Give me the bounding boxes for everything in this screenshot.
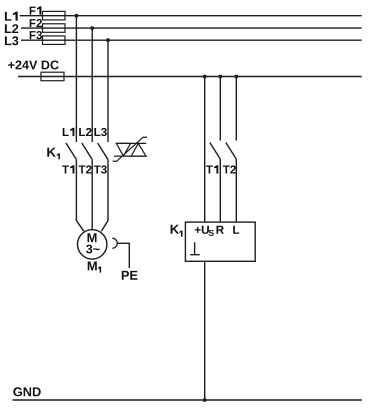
contactor pin label L2 (79, 128, 91, 136)
triac right triangle (131, 143, 146, 156)
wire contact T1 to box R (219, 159, 221, 222)
label PE (122, 271, 138, 280)
wire L1 phase line (20, 15, 362, 17)
terminal label R (217, 226, 224, 234)
wire drop from L1 to contactor (75, 16, 77, 142)
wire contact T2 to box L (235, 159, 237, 222)
contact label T1 (206, 165, 218, 173)
label F2 (30, 19, 42, 27)
fuse F3 (43, 36, 66, 45)
node junction dot L3 (106, 38, 110, 42)
triac symbol top line (116, 142, 147, 144)
fuse F1 (43, 11, 66, 20)
contactor pin label T2 (79, 165, 92, 173)
node junction dot +24V to T1 (218, 75, 222, 79)
wire +24V down to K1 box +Us (204, 77, 206, 223)
triac symbol bottom line (114, 155, 147, 157)
wire GND line (13, 399, 363, 401)
wire contactor T3 to motor (101, 160, 108, 232)
wire +24V down to contact T2 (235, 77, 237, 141)
label +24V DC (8, 61, 59, 70)
label L1 (5, 12, 18, 21)
contact T1 (210, 143, 220, 160)
wire drop from L2 to contactor (91, 28, 93, 142)
fuse on +24V line (41, 72, 64, 81)
motor label M (88, 233, 97, 242)
fuse F2 (43, 24, 66, 33)
motor M1 circle (78, 230, 107, 259)
label K1 contactor (47, 148, 60, 160)
contactor K1 pole 2 contact (82, 143, 92, 160)
wire L3 phase line (21, 39, 362, 41)
contactor K1 pole 3 contact (98, 143, 108, 160)
wire +24V DC line (18, 76, 362, 78)
contactor pin label T1 (62, 165, 74, 173)
terminal label L (233, 226, 239, 234)
relay module K1 box (185, 222, 255, 261)
label F3 (30, 31, 42, 39)
label M1 (88, 262, 101, 273)
label F1 (30, 6, 42, 14)
PE terminal arc on motor (112, 238, 117, 248)
triac left triangle (116, 143, 130, 156)
node junction dot +24V to T2 (234, 75, 238, 79)
motor label 3~ (86, 245, 100, 254)
label L3 (5, 36, 18, 45)
wire K1 box to GND (204, 261, 206, 400)
wire PE (117, 243, 129, 268)
wire +24V down to contact T1 (219, 77, 221, 141)
label GND (13, 387, 40, 396)
ground symbol inside K1 box (190, 242, 200, 255)
wire contactor T2 to motor (91, 160, 93, 230)
node junction dot +24V to +Us (203, 75, 207, 79)
contactor pin label L1 (63, 128, 75, 136)
node junction dot on GND (203, 398, 207, 402)
contactor K1 pole 1 contact (66, 143, 76, 160)
label L2 (5, 24, 18, 33)
contactor pin label T3 (94, 165, 107, 173)
triac gate diagonal with hooks (113, 137, 147, 161)
node junction dot L1 (75, 14, 79, 18)
label K1 module (171, 225, 183, 237)
wire contactor T1 to motor (76, 160, 83, 232)
node junction dot L2 (90, 26, 94, 30)
wire drop from L3 to contactor (107, 40, 109, 142)
contact T2 (226, 143, 236, 160)
terminal label +Us (195, 226, 214, 236)
contact label T2 (223, 165, 236, 173)
wire L2 phase line (21, 27, 362, 29)
contactor pin label L3 (94, 128, 106, 136)
